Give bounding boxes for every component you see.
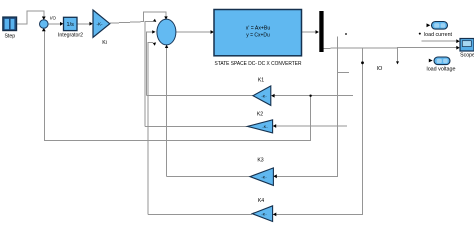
svg-text:Scope: Scope bbox=[460, 53, 474, 59]
svg-text:-K-: -K- bbox=[261, 211, 267, 216]
svg-text:K4: K4 bbox=[258, 198, 264, 204]
svg-text:STATE SPACE DC- DC X CONVERTER: STATE SPACE DC- DC X CONVERTER bbox=[215, 61, 302, 67]
svg-text:y = Cx+Du: y = Cx+Du bbox=[246, 33, 270, 39]
svg-text:-K-: -K- bbox=[97, 22, 104, 27]
svg-text:K1: K1 bbox=[258, 77, 264, 83]
svg-text:load voltage: load voltage bbox=[427, 67, 456, 73]
svg-text:-K-: -K- bbox=[261, 94, 267, 99]
svg-text:load current: load current bbox=[424, 32, 453, 38]
svg-text:K3: K3 bbox=[257, 158, 263, 164]
svg-text:IO: IO bbox=[377, 66, 383, 72]
svg-text:I/O: I/O bbox=[50, 16, 57, 21]
svg-text:Step: Step bbox=[4, 34, 15, 40]
svg-text:Ki: Ki bbox=[102, 40, 107, 46]
svg-text:1/s: 1/s bbox=[67, 22, 75, 28]
svg-text:Integrator2: Integrator2 bbox=[58, 33, 83, 39]
svg-text:-K-: -K- bbox=[262, 124, 268, 129]
svg-text:x' = Ax+Bu: x' = Ax+Bu bbox=[246, 26, 271, 32]
svg-text:-K-: -K- bbox=[261, 174, 267, 179]
svg-text:K2: K2 bbox=[257, 112, 263, 118]
